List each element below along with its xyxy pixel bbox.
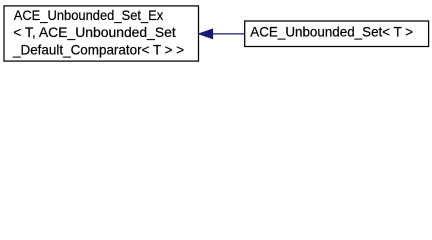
inheritance edge shaft [212, 33, 245, 35]
node ACE_Unbounded_Set< T > box [245, 21, 429, 47]
svg-text:ACE_Unbounded_Set< T >: ACE_Unbounded_Set< T > [250, 24, 413, 40]
svg-text:< T, ACE_Unbounded_Set: < T, ACE_Unbounded_Set [13, 24, 176, 40]
svg-text:_Default_Comparator< T > >: _Default_Comparator< T > > [12, 41, 184, 57]
inheritance edge arrowhead [199, 29, 213, 39]
svg-text:ACE_Unbounded_Set_Ex: ACE_Unbounded_Set_Ex [14, 7, 164, 23]
node ACE_Unbounded_Set_Ex box [4, 6, 199, 61]
